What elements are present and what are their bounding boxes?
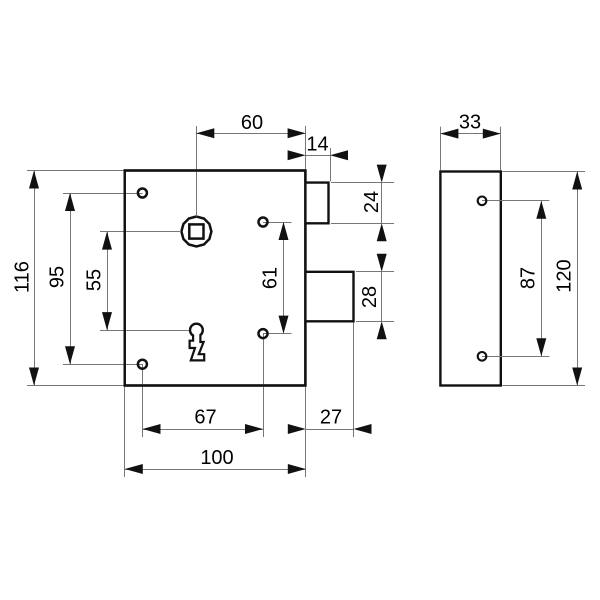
dim 61 extension line top bbox=[263, 222, 292, 224]
dim 120 extension line bottom bbox=[502, 385, 585, 387]
dim 61 line bbox=[283, 222, 285, 334]
dim 24 extension line bottom bbox=[331, 223, 394, 225]
dim 87 extension line top bbox=[482, 200, 549, 202]
keyhole zigzag bit bbox=[190, 335, 205, 361]
dim 28 extension line top bbox=[356, 271, 394, 273]
svg-text:27: 27 bbox=[320, 407, 342, 429]
dim 116 extension line top bbox=[27, 170, 124, 172]
dim 87 line bbox=[541, 201, 543, 356]
dim 27 line bbox=[306, 429, 354, 431]
dim 61 extension line bottom bbox=[263, 333, 292, 335]
dim 100 extension line left bbox=[124, 387, 126, 477]
svg-text:24: 24 bbox=[361, 191, 383, 213]
svg-text:28: 28 bbox=[359, 286, 381, 308]
dim 33 extension line right bbox=[500, 127, 502, 171]
svg-text:55: 55 bbox=[84, 269, 106, 291]
deadbolt (bottom, 27x28) bbox=[306, 272, 354, 322]
dim 120 extension line top bbox=[502, 171, 585, 173]
svg-text:120: 120 bbox=[554, 259, 576, 292]
dim 28 line bbox=[381, 272, 383, 322]
dim 116 extension line bottom bbox=[27, 385, 124, 387]
dim 33 extension line left bbox=[440, 127, 442, 171]
faceplate screw hole bottom bbox=[478, 352, 487, 361]
screw hole bottom-right bbox=[259, 329, 268, 338]
faceplate (right, 33x120) bbox=[440, 172, 500, 386]
faceplate screw hole top bbox=[478, 197, 487, 206]
dim 55 extension line top bbox=[100, 231, 181, 233]
dim 24 extension line top bbox=[331, 182, 394, 184]
svg-text:100: 100 bbox=[200, 447, 233, 469]
dim 33 line bbox=[440, 133, 500, 135]
dim 60/14 extension line (body right edge) bbox=[305, 126, 307, 169]
dim 14 extension line (latch right edge) bbox=[330, 148, 332, 181]
dim 87 extension line bottom bbox=[482, 356, 549, 358]
svg-text:60: 60 bbox=[241, 112, 263, 134]
dim 100/27 extension line right (body right edge) bbox=[305, 387, 307, 477]
dim 120 line bbox=[577, 172, 579, 386]
screw hole top-left bbox=[138, 189, 147, 198]
dim 60 extension line (spindle centre) bbox=[196, 126, 198, 217]
lock body case bbox=[125, 171, 306, 386]
spindle hub (12-gon) bbox=[181, 217, 211, 247]
svg-text:14: 14 bbox=[306, 134, 328, 156]
svg-text:67: 67 bbox=[194, 407, 216, 429]
dim 55 line bbox=[107, 232, 109, 331]
svg-text:87: 87 bbox=[518, 267, 540, 289]
dim 14 line bbox=[306, 155, 330, 157]
dim 116 line bbox=[34, 171, 36, 386]
keyhole circle bbox=[190, 324, 203, 337]
dim 28 extension line bottom bbox=[356, 321, 394, 323]
latch bolt (top, 14x24) bbox=[306, 183, 329, 224]
svg-text:61: 61 bbox=[260, 267, 282, 289]
spindle square hole bbox=[189, 224, 203, 238]
dim 60 line bbox=[196, 133, 305, 135]
dim 100 line bbox=[125, 469, 306, 471]
dim 95 extension line bottom bbox=[63, 364, 143, 366]
dim 95 extension line top bbox=[63, 193, 143, 195]
dim 24 line bbox=[381, 183, 383, 224]
dim 67 extension line right (from bottom-right hole) bbox=[263, 334, 265, 437]
dim 67 extension line left (from bottom-left hole) bbox=[142, 364, 144, 437]
screw hole top-right bbox=[259, 218, 268, 227]
screw hole bottom-left bbox=[138, 360, 147, 369]
lock body outline re-stroke (keeps outline solid over extension lines) bbox=[125, 171, 306, 386]
dim 95 line bbox=[70, 193, 72, 364]
svg-text:33: 33 bbox=[459, 112, 481, 134]
dim 27 extension line right (deadbolt right edge) bbox=[353, 323, 355, 437]
dim 67 line bbox=[143, 429, 264, 431]
dim 55 extension line bottom bbox=[100, 330, 189, 332]
svg-text:116: 116 bbox=[12, 261, 34, 293]
svg-text:95: 95 bbox=[47, 266, 69, 288]
